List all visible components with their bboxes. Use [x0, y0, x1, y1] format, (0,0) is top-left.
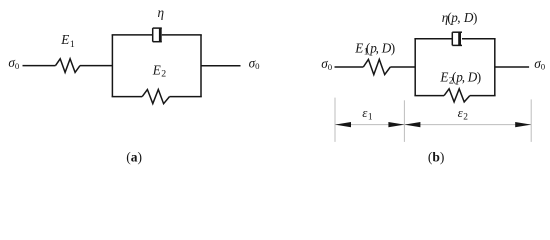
wire input (a)	[23, 65, 56, 67]
svg-text:0: 0	[328, 62, 333, 72]
svg-text:E: E	[152, 62, 161, 77]
label E1 (a)	[60, 32, 75, 50]
box left wire (b)	[414, 39, 416, 96]
label sigma0 right (a)	[249, 55, 261, 71]
svg-text:E: E	[354, 41, 363, 56]
svg-text:(a): (a)	[126, 149, 142, 164]
svg-text:): )	[477, 70, 481, 85]
wire output (b)	[495, 66, 529, 68]
svg-text:2: 2	[161, 69, 166, 80]
svg-text:,: ,	[376, 41, 379, 56]
arrowhead eps1 right	[388, 122, 404, 127]
svg-text:(b): (b)	[428, 149, 445, 164]
svg-text:1: 1	[368, 112, 373, 122]
spring E1(p,D) (b)	[363, 59, 390, 74]
wire output (a)	[201, 65, 241, 67]
spring E2 (a)	[142, 90, 169, 104]
box left wire (a)	[111, 35, 113, 97]
svg-text:0: 0	[541, 62, 546, 72]
label eps2	[458, 105, 469, 122]
dimension line eps2	[404, 124, 531, 126]
svg-text:1: 1	[70, 39, 75, 50]
svg-text:0: 0	[15, 61, 20, 71]
label sigma0 right (b)	[534, 56, 546, 72]
dimension line eps1	[335, 124, 404, 126]
svg-text:): )	[473, 10, 477, 25]
arrowhead eps2 left	[404, 122, 420, 127]
svg-text:E: E	[60, 32, 69, 47]
wire input (b)	[335, 66, 364, 68]
label eps1	[362, 105, 373, 122]
label E1(p,D) (b)	[354, 41, 395, 58]
extension line right (b strains)	[530, 99, 532, 141]
svg-text:,: ,	[457, 10, 460, 25]
box right wire (b)	[494, 39, 496, 96]
spring E1 (a)	[56, 59, 81, 73]
svg-text:): )	[391, 41, 395, 56]
spring E2(p,D) (b)	[444, 89, 470, 102]
dashpot eta(p,D) (b)	[452, 32, 462, 45]
svg-text:E: E	[439, 70, 448, 85]
extension line left (b strains)	[334, 98, 336, 142]
dashpot eta (a)	[153, 28, 162, 42]
svg-text:0: 0	[255, 61, 260, 71]
extension line middle (b strains)	[403, 100, 405, 142]
label sigma0 left (b)	[321, 56, 333, 72]
label E2 (a)	[152, 62, 167, 79]
bottom branch wire right (b)	[470, 95, 496, 97]
top branch wire right (a)	[162, 34, 202, 36]
wire spring-to-box (b)	[390, 66, 415, 68]
svg-text:2: 2	[463, 112, 468, 122]
bottom branch wire left (b)	[414, 95, 444, 97]
top branch wire left (a)	[112, 34, 153, 36]
wire spring-to-box (a)	[80, 65, 112, 67]
arrowhead eps1 left	[335, 122, 351, 127]
svg-text:η: η	[158, 5, 165, 20]
top branch wire left (b)	[414, 38, 452, 40]
label E2(p,D) (b)	[439, 70, 481, 87]
label sigma0 left (a)	[8, 55, 20, 71]
arrowhead eps2 right	[515, 122, 531, 127]
box right wire (a)	[200, 35, 202, 97]
label eta(p,D) (b)	[442, 10, 478, 25]
top branch wire right (b)	[462, 38, 496, 40]
bottom branch wire left (a)	[112, 96, 143, 98]
bottom branch wire right (a)	[170, 96, 202, 98]
svg-text:,: ,	[462, 70, 465, 85]
